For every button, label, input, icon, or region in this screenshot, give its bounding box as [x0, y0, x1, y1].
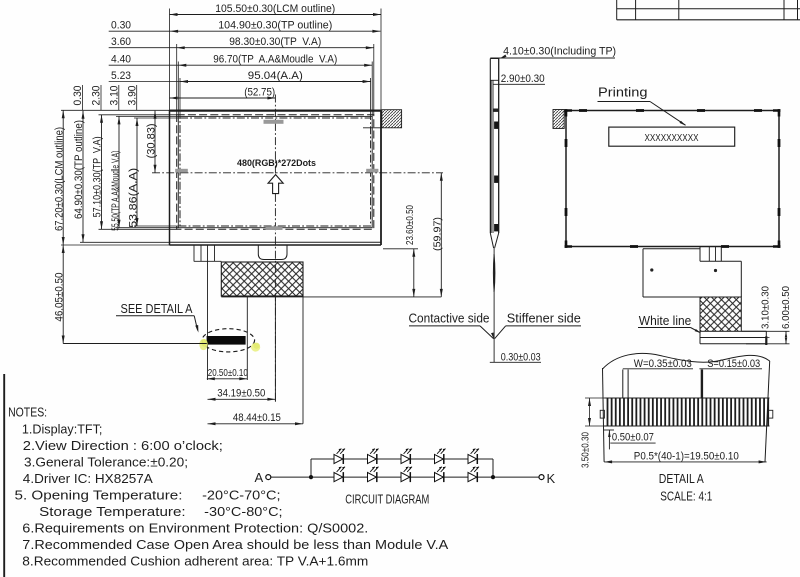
svg-text:95.04(A.A): 95.04(A.A) — [248, 70, 303, 82]
svg-text:3.60: 3.60 — [111, 36, 131, 48]
svg-text:4.Driver IC: HX8257A: 4.Driver IC: HX8257A — [23, 471, 153, 486]
svg-text:53.86(A.A): 53.86(A.A) — [127, 168, 139, 228]
svg-text:-30°C-80°C;: -30°C-80°C; — [204, 504, 282, 519]
svg-text:SEE DETAIL A: SEE DETAIL A — [121, 302, 194, 316]
svg-text:2.90±0.30: 2.90±0.30 — [501, 73, 545, 85]
svg-text:23.60±0.50: 23.60±0.50 — [405, 205, 416, 245]
svg-text:Contactive side: Contactive side — [409, 312, 490, 326]
svg-text:XXXXXXXXXX: XXXXXXXXXX — [645, 132, 699, 144]
svg-text:Storage Temperature:: Storage Temperature: — [39, 504, 185, 519]
svg-text:P0.5*(40-1)=19.50±0.10: P0.5*(40-1)=19.50±0.10 — [634, 450, 739, 462]
svg-text:55.50(TP A.A&Moudle V.A): 55.50(TP A.A&Moudle V.A) — [111, 151, 122, 231]
svg-text:White line: White line — [639, 314, 692, 328]
svg-text:4.40: 4.40 — [111, 54, 131, 66]
svg-text:-20°C-70°C;: -20°C-70°C; — [202, 488, 280, 503]
svg-text:0.50±0.07: 0.50±0.07 — [612, 432, 654, 444]
svg-text:3.50±0.30: 3.50±0.30 — [580, 432, 591, 468]
svg-text:48.44±0.15: 48.44±0.15 — [233, 412, 281, 424]
svg-text:3.General Tolerance:±0.20;: 3.General Tolerance:±0.20; — [24, 455, 188, 470]
svg-text:5. Opening Temperature:: 5. Opening Temperature: — [15, 488, 183, 503]
svg-text:46.05±0.50: 46.05±0.50 — [53, 273, 65, 322]
svg-text:8.Recommended Cushion adherent: 8.Recommended Cushion adherent area: TP … — [22, 554, 368, 569]
svg-text:(30.83): (30.83) — [145, 123, 157, 158]
svg-text:6.Requirements on Environment: 6.Requirements on Environment Protection… — [22, 521, 368, 536]
svg-text:S=0.15±0.03: S=0.15±0.03 — [707, 358, 760, 370]
svg-text:6.00±0.50: 6.00±0.50 — [781, 285, 792, 329]
svg-text:(52.75): (52.75) — [244, 86, 275, 98]
svg-text:105.50±0.30(LCM outline): 105.50±0.30(LCM outline) — [215, 3, 335, 15]
svg-text:57.10±0.30(TP V.A): 57.10±0.30(TP V.A) — [92, 136, 104, 217]
svg-text:W=0.35±0.03: W=0.35±0.03 — [634, 358, 692, 370]
svg-text:DETAIL A: DETAIL A — [659, 472, 705, 486]
svg-text:Stiffener side: Stiffener side — [507, 312, 581, 326]
svg-text:NOTES:: NOTES: — [8, 405, 47, 420]
svg-text:2.View Direction : 6:00 o’cloc: 2.View Direction : 6:00 o’clock; — [23, 438, 223, 453]
svg-text:1.Display:TFT;: 1.Display:TFT; — [22, 422, 103, 437]
svg-text:SCALE: 4:1: SCALE: 4:1 — [660, 489, 712, 503]
svg-text:Printing: Printing — [598, 86, 648, 100]
svg-text:34.19±0.50: 34.19±0.50 — [217, 387, 265, 399]
svg-text:3.10±0.30: 3.10±0.30 — [760, 285, 771, 329]
svg-text:96.70(TP A.A&Moudle V.A): 96.70(TP A.A&Moudle V.A) — [213, 54, 337, 66]
svg-text:67.20±0.30(LCM outline): 67.20±0.30(LCM outline) — [53, 127, 65, 231]
svg-text:CIRCUIT DIAGRAM: CIRCUIT DIAGRAM — [345, 492, 429, 506]
svg-text:480(RGB)*272Dots: 480(RGB)*272Dots — [237, 158, 316, 168]
svg-text:64.90±0.30(TP outline): 64.90±0.30(TP outline) — [73, 120, 85, 219]
svg-text:5.23: 5.23 — [111, 70, 131, 82]
svg-text:104.90±0.30(TP outline): 104.90±0.30(TP outline) — [218, 20, 332, 32]
svg-text:0.30: 0.30 — [111, 20, 131, 32]
svg-text:A: A — [255, 470, 264, 485]
svg-text:K: K — [547, 471, 556, 486]
svg-text:98.30±0.30(TP V.A): 98.30±0.30(TP V.A) — [229, 36, 321, 48]
svg-text:4.10±0.30(Including TP): 4.10±0.30(Including TP) — [503, 46, 616, 58]
svg-text:0.30±0.03: 0.30±0.03 — [501, 351, 541, 363]
svg-text:7.Recommended Case Open Area s: 7.Recommended Case Open Area should be l… — [22, 537, 448, 552]
svg-text:(59.97): (59.97) — [432, 217, 443, 251]
